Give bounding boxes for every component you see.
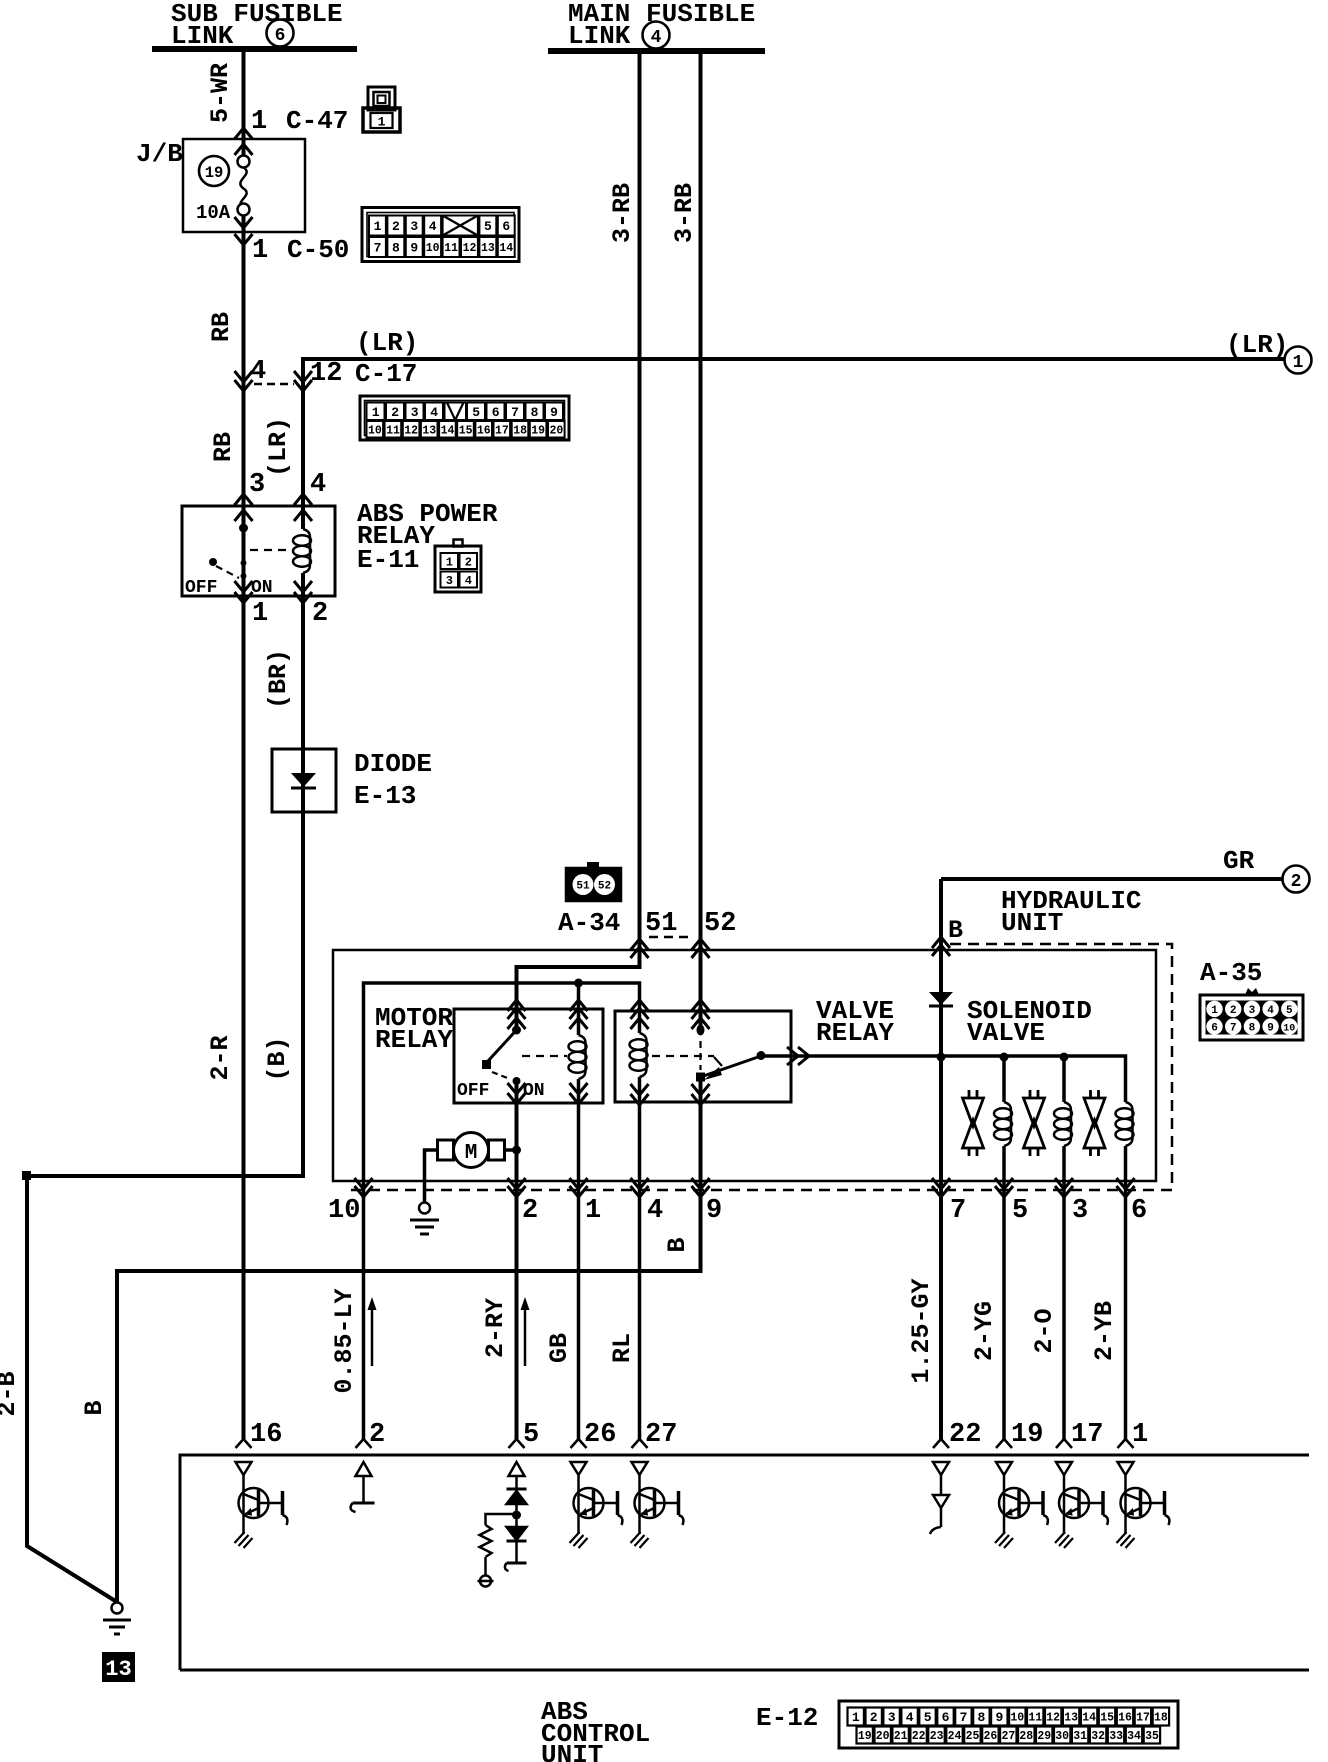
chevrons valve relay output leaving box [787, 1047, 809, 1065]
hydraulic unit pin 6 chevrons [1117, 1178, 1135, 1197]
svg-text:18: 18 [513, 424, 527, 437]
svg-text:16: 16 [477, 424, 491, 437]
relay switch dashed OFF arm [216, 566, 239, 578]
svg-text:34: 34 [1127, 1730, 1141, 1743]
svg-text:10A: 10A [196, 202, 231, 224]
transistor at ABS pin 1 [1117, 1462, 1170, 1548]
svg-text:4: 4 [429, 219, 437, 234]
svg-text:19: 19 [858, 1730, 872, 1743]
diode E-13 symbol [291, 773, 316, 788]
svg-text:22: 22 [949, 1420, 981, 1450]
wire from hydraulic unit pin 10 up to relay coils feed line [364, 983, 640, 1439]
connector E-11 icon [435, 540, 481, 593]
direction arrow 2-RY [521, 1297, 530, 1366]
connector C-50 icon [362, 208, 519, 262]
svg-text:1: 1 [251, 107, 267, 137]
svg-text:17: 17 [1071, 1420, 1103, 1450]
svg-text:J/B: J/B [136, 139, 183, 169]
relay switch pivot junction dot [239, 524, 248, 533]
svg-text:12: 12 [310, 359, 342, 389]
svg-text:10: 10 [426, 242, 440, 255]
ground symbol below motor [410, 1203, 439, 1235]
svg-text:C-17: C-17 [355, 359, 417, 389]
label 12 C-17 [310, 359, 417, 389]
chevron entering J/B [235, 144, 253, 155]
connector C-47 icon [363, 87, 400, 132]
node 1: circled 1 [1285, 347, 1312, 374]
svg-text:31: 31 [1073, 1730, 1087, 1743]
svg-text:10: 10 [1283, 1024, 1295, 1035]
motor relay ON contact dot [513, 1077, 521, 1085]
svg-text:5-WR: 5-WR [206, 63, 235, 123]
svg-text:4: 4 [906, 1710, 914, 1725]
motor relay switch pivot dot [512, 1026, 521, 1035]
svg-text:OFF: OFF [457, 1081, 489, 1101]
wire 3-RB (pin 52) from main fusible link to valve relay contact [699, 51, 703, 1032]
svg-text:6: 6 [1131, 1196, 1147, 1226]
svg-text:1: 1 [378, 115, 386, 130]
svg-text:9: 9 [410, 241, 418, 256]
junction dot solenoid bus coil 2 [1060, 1053, 1069, 1062]
svg-text:21: 21 [894, 1730, 908, 1743]
svg-text:9: 9 [1267, 1023, 1274, 1035]
svg-text:3: 3 [1072, 1196, 1088, 1226]
wire GR to node 2 [941, 877, 1283, 881]
ABS control unit pin 26 terminal [571, 1439, 587, 1448]
svg-text:3-RB: 3-RB [608, 183, 637, 243]
svg-text:14: 14 [441, 424, 455, 437]
bus bar: sub fusible link [152, 46, 357, 52]
svg-text:13: 13 [422, 424, 436, 437]
connector C-17 icon [360, 396, 569, 440]
chevrons valve relay common leaving box [692, 1084, 710, 1105]
svg-text:51: 51 [576, 881, 590, 893]
svg-text:4: 4 [465, 574, 472, 588]
svg-text:24: 24 [948, 1730, 962, 1743]
svg-text:7: 7 [1230, 1023, 1237, 1035]
svg-text:2-R: 2-R [206, 1035, 235, 1080]
ABS control unit pin 27 terminal [632, 1439, 648, 1448]
valve relay coil [630, 1033, 648, 1077]
svg-text:GB: GB [545, 1333, 574, 1363]
svg-text:52: 52 [704, 909, 736, 939]
valve relay box [615, 1011, 791, 1102]
svg-text:19: 19 [205, 164, 224, 182]
label ABS CONTROL UNIT [541, 1697, 650, 1762]
hydraulic unit pin 10 chevrons [355, 1178, 373, 1197]
svg-text:2: 2 [465, 555, 472, 569]
wire through relay coil lower segment down to diode and 2-B ground run [27, 573, 303, 1602]
svg-text:A-35: A-35 [1200, 958, 1262, 988]
svg-text:2: 2 [392, 219, 400, 234]
hydraulic unit pin 5 chevrons [995, 1178, 1013, 1197]
solenoid coil 2 wire and coil [1054, 1057, 1072, 1439]
svg-text:32: 32 [1091, 1730, 1105, 1743]
svg-text:(BR): (BR) [264, 649, 293, 709]
svg-text:12: 12 [463, 242, 477, 255]
svg-text:DIODE: DIODE [354, 749, 432, 779]
transistor at ABS pin 26 [570, 1462, 623, 1548]
hydraulic unit pin 3 chevrons [1055, 1178, 1073, 1197]
wire motor right lead [505, 1148, 517, 1152]
svg-text:13: 13 [1064, 1712, 1078, 1725]
hydraulic unit pin 1 chevrons [570, 1178, 588, 1197]
svg-text:C-50: C-50 [287, 235, 349, 265]
svg-text:7: 7 [511, 405, 519, 420]
junction dot on coil feed line [574, 979, 583, 988]
svg-text:E-11: E-11 [357, 545, 419, 575]
wire valve relay output to solenoid bus [761, 1056, 1126, 1102]
chevrons motor relay switch wire entering box [508, 1000, 526, 1029]
dashed mechanical link motor relay [522, 1055, 567, 1057]
svg-text:19: 19 [1011, 1420, 1043, 1450]
svg-text:1: 1 [1132, 1420, 1148, 1450]
hydraulic unit pin 2 chevrons [508, 1178, 526, 1197]
relay box: ABS power relay [182, 506, 335, 596]
svg-text:GR: GR [1223, 846, 1255, 876]
valve relay moving contact square [696, 1073, 705, 1082]
motor relay switch arm (OFF position) [488, 1030, 517, 1061]
svg-text:3: 3 [446, 574, 453, 588]
chevrons ABS power relay pin 2 [294, 581, 312, 603]
svg-text:16: 16 [250, 1420, 282, 1450]
label 1 C-50 [252, 235, 349, 266]
svg-text:RELAY: RELAY [375, 1025, 453, 1055]
solenoid valve symbol 2 [1024, 1090, 1045, 1156]
svg-text:2: 2 [391, 405, 399, 420]
chevrons motor relay coil wire leaving box [570, 1083, 588, 1104]
svg-text:3: 3 [1249, 1005, 1256, 1017]
chevrons valve relay coil wire entering box [631, 1000, 649, 1029]
svg-text:6: 6 [942, 1710, 950, 1725]
svg-text:VALVE: VALVE [967, 1018, 1045, 1048]
svg-text:E-13: E-13 [354, 781, 416, 811]
svg-text:B: B [948, 916, 963, 945]
svg-text:1.25-GY: 1.25-GY [907, 1278, 936, 1383]
svg-text:28: 28 [1019, 1730, 1033, 1743]
svg-text:20: 20 [549, 424, 563, 437]
svg-text:22: 22 [912, 1730, 926, 1743]
svg-text:33: 33 [1109, 1730, 1123, 1743]
chevrons motor relay coil wire entering box [570, 1000, 588, 1029]
ABS control unit box [180, 1455, 1309, 1670]
svg-text:4: 4 [647, 1196, 663, 1226]
svg-text:LINK: LINK [568, 21, 631, 51]
svg-text:8: 8 [392, 241, 400, 256]
label VALVE RELAY [816, 996, 894, 1048]
label SOLENOID VALVE [967, 996, 1092, 1048]
diode inside hydraulic unit on wire B [929, 992, 953, 1006]
svg-text:6: 6 [502, 219, 510, 234]
label ABS POWER RELAY E-11 [357, 499, 498, 575]
ABS control unit pin 5 terminal [509, 1439, 525, 1448]
svg-text:1: 1 [1211, 1005, 1218, 1017]
label MOTOR RELAY [375, 1003, 453, 1055]
fuse 10A symbol [238, 156, 250, 216]
relay coil (ABS power relay) [293, 529, 311, 573]
svg-text:5: 5 [484, 219, 492, 234]
svg-text:27: 27 [645, 1420, 677, 1450]
wire (LR) horizontal to node 1 and down through relay pin 4 [303, 359, 1285, 529]
svg-text:1: 1 [372, 405, 380, 420]
ABS control unit pin 16 terminal [236, 1439, 252, 1448]
svg-text:RELAY: RELAY [816, 1018, 894, 1048]
svg-text:6: 6 [492, 405, 500, 420]
wire motor left lead to ground [425, 1150, 438, 1202]
svg-text:1: 1 [852, 1710, 860, 1725]
transistor at ABS pin 17 [1055, 1462, 1108, 1548]
svg-text:(B): (B) [263, 1036, 292, 1081]
ABS control unit pin 17 terminal [1056, 1439, 1072, 1448]
ABS control unit pin 19 terminal [996, 1439, 1012, 1448]
svg-text:E-12: E-12 [756, 1703, 818, 1733]
svg-text:11: 11 [1028, 1712, 1042, 1725]
svg-text:(LR): (LR) [356, 328, 418, 358]
svg-text:30: 30 [1055, 1730, 1069, 1743]
chevron leaving J/B (inside) [235, 217, 253, 228]
wire 3-RB (pin 51) from main fusible link to motor relay switch [517, 51, 640, 1030]
svg-text:4: 4 [651, 28, 662, 48]
svg-text:6: 6 [1211, 1023, 1218, 1035]
svg-text:26: 26 [983, 1730, 997, 1743]
bus bar: main fusible link [548, 48, 765, 54]
solenoid coil 1 wire and coil [994, 1057, 1012, 1439]
svg-text:52: 52 [598, 881, 611, 893]
junction dot solenoid bus coil 1 [1000, 1053, 1009, 1062]
motor relay coil [569, 1035, 587, 1079]
wire B from GR line down to ABS control unit pin 22 [939, 879, 943, 1439]
svg-text:26: 26 [584, 1420, 616, 1450]
svg-text:35: 35 [1145, 1730, 1159, 1743]
label DIODE E-13 [354, 749, 432, 811]
ground reference 13 black box [102, 1652, 135, 1682]
svg-text:2: 2 [522, 1196, 538, 1226]
wire motor relay coil to hydraulic unit pin 1 [577, 1079, 581, 1439]
output symbol at ABS pin 22 [930, 1462, 949, 1534]
svg-text:UNIT: UNIT [541, 1740, 603, 1762]
solenoid valve symbol 3 [1084, 1090, 1105, 1156]
svg-text:7: 7 [374, 241, 382, 256]
svg-text:3-RB: 3-RB [670, 183, 699, 243]
valve relay dashed contact gap [699, 1041, 701, 1070]
svg-text:ON: ON [251, 578, 273, 598]
valve relay fixed contact (teardrop) [697, 1025, 705, 1036]
svg-text:15: 15 [459, 424, 473, 437]
svg-text:14: 14 [1082, 1712, 1096, 1725]
connector E-12 icon [839, 1701, 1178, 1748]
motor M [438, 1133, 505, 1168]
valve relay arm end dot [757, 1051, 766, 1060]
hydraulic unit pin 4 chevrons [631, 1178, 649, 1197]
diode E-13 box [272, 749, 336, 812]
svg-text:12: 12 [1046, 1712, 1060, 1725]
wire valve relay common down to hydraulic unit pin 9 and B net to ground [117, 1077, 701, 1602]
hydraulic unit pin 9 chevrons [692, 1178, 710, 1197]
junction dot motor output [512, 1146, 521, 1155]
svg-text:2: 2 [1230, 1005, 1237, 1017]
svg-text:9: 9 [706, 1196, 722, 1226]
svg-text:2-YB: 2-YB [1090, 1301, 1119, 1361]
label MAIN FUSIBLE LINK [568, 0, 755, 51]
chevrons ABS power relay pin 1 [235, 581, 253, 603]
svg-text:2: 2 [369, 1420, 385, 1450]
svg-text:1: 1 [252, 599, 268, 629]
dashed connector A-34 boundary link between 51 and 52 [649, 936, 692, 939]
svg-text:A-34: A-34 [558, 908, 620, 938]
svg-text:2: 2 [312, 599, 328, 629]
label 1 C-47 [251, 106, 348, 137]
svg-text:RB: RB [207, 312, 236, 342]
svg-text:4: 4 [250, 357, 266, 387]
svg-text:UNIT: UNIT [1001, 908, 1063, 938]
svg-text:17: 17 [495, 424, 509, 437]
transistor at ABS pin 27 [631, 1462, 684, 1548]
svg-text:(LR): (LR) [1226, 330, 1288, 360]
svg-text:13: 13 [105, 1657, 131, 1682]
svg-text:3: 3 [411, 405, 419, 420]
svg-text:OFF: OFF [185, 578, 217, 598]
chevrons valve relay contact wire (52) entering box [692, 1000, 710, 1029]
svg-text:C-47: C-47 [286, 106, 348, 136]
svg-text:8: 8 [1249, 1023, 1256, 1035]
svg-text:5: 5 [924, 1710, 932, 1725]
chevrons wire 52 entering hydraulic unit [692, 939, 710, 958]
dashed link between C-17 pins 4 and 12 [254, 383, 294, 386]
wire RB/2-R segment from fuse down to ABS control unit pin 16 [242, 215, 246, 1439]
svg-text:8: 8 [977, 1710, 985, 1725]
junction dot solenoid bus / wire B [937, 1053, 946, 1062]
chevrons wire B entering hydraulic unit [932, 937, 950, 956]
svg-text:2: 2 [1291, 872, 1302, 892]
svg-text:6: 6 [275, 26, 286, 46]
connector C-17 pin 12 chevrons [294, 371, 312, 391]
svg-text:10: 10 [368, 424, 382, 437]
connector A-35 icon [1200, 988, 1303, 1040]
svg-text:(LR): (LR) [264, 417, 293, 477]
label HYDRAULIC UNIT [1001, 886, 1141, 938]
direction arrow 0.85-LY [368, 1297, 377, 1366]
svg-text:5: 5 [523, 1420, 539, 1450]
dashed mechanical link valve relay [652, 1056, 722, 1066]
svg-text:RB: RB [209, 432, 238, 462]
chevrons ABS power relay pin 3 [235, 494, 253, 521]
node 2: circled 2 [1283, 866, 1310, 893]
svg-text:12: 12 [404, 424, 418, 437]
dashed mechanical link relay [250, 549, 292, 551]
solenoid coil 3 coil and wire [1116, 1102, 1134, 1439]
wire motor relay output to motor and hydraulic unit pin 2 [515, 1081, 519, 1439]
svg-text:16: 16 [1118, 1712, 1132, 1725]
chevrons wire 51 entering hydraulic unit [631, 939, 649, 958]
svg-text:2-YG: 2-YG [970, 1301, 999, 1361]
wire motor relay coil upper lead [577, 983, 581, 1035]
chevrons valve relay coil wire leaving box [631, 1084, 649, 1105]
junction square at corner of 2-B run [22, 1171, 31, 1180]
wire 5-WR segment from sub fusible link to J/B fuse [242, 49, 246, 156]
svg-text:7: 7 [960, 1710, 968, 1725]
svg-text:1: 1 [585, 1196, 601, 1226]
valve relay arm arrowhead [704, 1067, 722, 1080]
svg-text:11: 11 [444, 242, 458, 255]
svg-text:9: 9 [995, 1710, 1003, 1725]
wire valve relay coil to hydraulic unit pin 4 [638, 1077, 642, 1439]
svg-text:10: 10 [328, 1196, 360, 1226]
valve relay switch arm [701, 1057, 759, 1077]
svg-text:23: 23 [930, 1730, 944, 1743]
svg-text:10: 10 [1010, 1712, 1024, 1725]
svg-text:17: 17 [1136, 1712, 1150, 1725]
svg-text:11: 11 [386, 424, 400, 437]
svg-text:4: 4 [310, 470, 326, 500]
svg-text:M: M [465, 1142, 478, 1165]
pin marker C-47 pin 1 (chevron) [235, 128, 253, 139]
chevron C-50 pin 1 [235, 234, 253, 245]
relay switch contact dots [241, 560, 247, 579]
transistor at ABS pin 19 [995, 1462, 1048, 1548]
svg-text:1: 1 [446, 555, 453, 569]
diode network at ABS pin 5 [478, 1462, 527, 1587]
input symbol at ABS pin 2 [351, 1462, 375, 1512]
label SUB FUSIBLE LINK [171, 0, 343, 51]
svg-text:18: 18 [1154, 1712, 1168, 1725]
chevrons ABS power relay pin 4 [294, 494, 312, 521]
svg-text:51: 51 [645, 909, 677, 939]
svg-text:5: 5 [472, 405, 480, 420]
svg-text:7: 7 [950, 1196, 966, 1226]
svg-text:20: 20 [876, 1730, 890, 1743]
hydraulic unit pin 7 chevrons [932, 1178, 950, 1197]
ABS control unit pin 22 terminal [933, 1439, 949, 1448]
svg-text:3: 3 [410, 219, 418, 234]
svg-text:B: B [80, 1400, 109, 1415]
svg-text:2-B: 2-B [0, 1371, 22, 1416]
node 4: circled 4 main fusible link [643, 22, 670, 49]
svg-text:29: 29 [1037, 1730, 1051, 1743]
solenoid valve symbol 1 [963, 1090, 984, 1156]
svg-text:5: 5 [1012, 1196, 1028, 1226]
svg-text:2-RY: 2-RY [481, 1298, 510, 1358]
svg-text:8: 8 [531, 405, 539, 420]
svg-text:25: 25 [966, 1730, 980, 1743]
relay switch OFF contact dot [209, 558, 217, 566]
junction block J/B box [183, 139, 305, 232]
svg-text:3: 3 [888, 1710, 896, 1725]
svg-text:4: 4 [1267, 1005, 1274, 1017]
hydraulic unit dashed boundary [348, 944, 1172, 1190]
svg-text:14: 14 [499, 242, 513, 255]
svg-text:RL: RL [608, 1333, 637, 1363]
svg-text:1: 1 [1293, 353, 1304, 373]
svg-text:19: 19 [531, 424, 545, 437]
fuse number: circled 19 [199, 156, 229, 186]
svg-text:15: 15 [1100, 1712, 1114, 1725]
ABS control unit pin 2 terminal [356, 1439, 372, 1448]
transistor at ABS pin 16 [235, 1462, 288, 1548]
svg-text:0.85-LY: 0.85-LY [330, 1288, 359, 1393]
ground symbol 13 [103, 1603, 131, 1635]
svg-text:2-O: 2-O [1030, 1308, 1059, 1353]
motor relay box [454, 1009, 603, 1103]
svg-text:1: 1 [252, 236, 268, 266]
connector C-17 pin 4 chevrons on wire RB [235, 371, 253, 391]
node 6: circled 6 sub fusible link [267, 20, 294, 47]
svg-text:9: 9 [550, 405, 558, 420]
svg-text:13: 13 [481, 242, 495, 255]
svg-text:27: 27 [1001, 1730, 1015, 1743]
svg-text:B: B [663, 1237, 692, 1252]
svg-text:4: 4 [430, 405, 438, 420]
chevrons motor relay switch wire leaving box [508, 1083, 526, 1104]
